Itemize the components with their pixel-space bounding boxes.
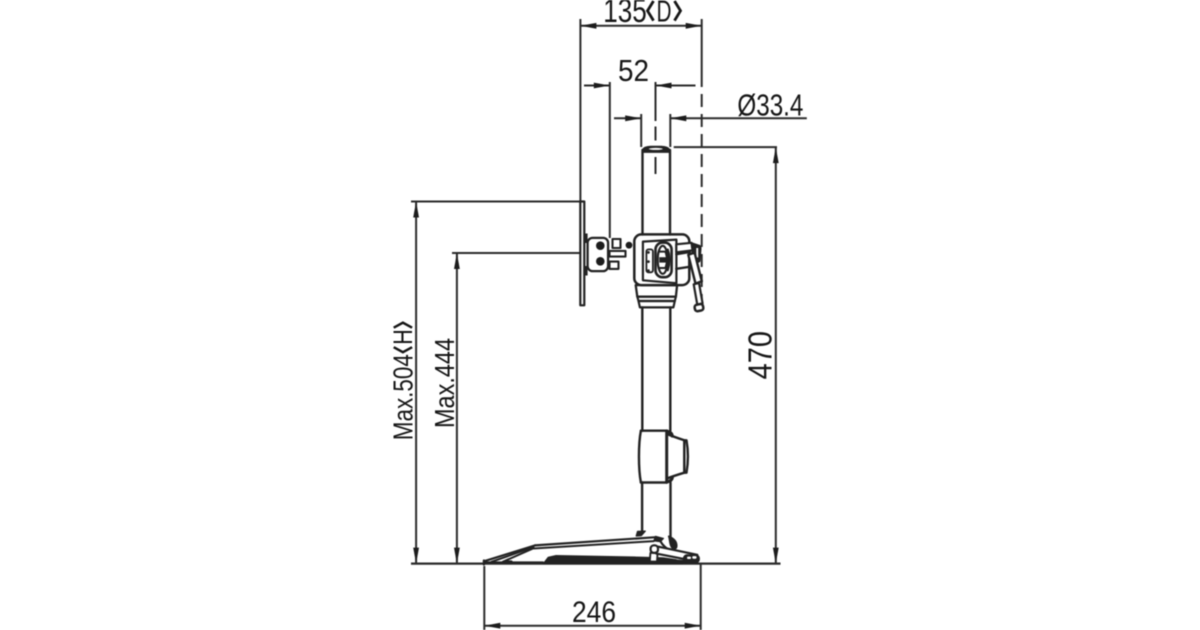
leader line O33.4 bbox=[670, 117, 807, 119]
base clip left strip bbox=[650, 553, 658, 562]
svg-text:H: H bbox=[388, 329, 418, 345]
clamp knob band bottom bbox=[659, 267, 667, 269]
dimension Max.504 line bbox=[415, 202, 417, 564]
base socket curve bbox=[659, 538, 668, 549]
svg-text:470: 470 bbox=[741, 331, 778, 379]
base terminal hole 1 bbox=[687, 557, 691, 559]
collar body bbox=[639, 431, 641, 483]
pole mid left edge bbox=[641, 307, 643, 430]
clamp inner rect bbox=[646, 249, 653, 272]
clamp knob arc 1 bbox=[668, 250, 670, 271]
base clip loop bbox=[651, 545, 658, 553]
dimension 246 line bbox=[484, 625, 700, 627]
extension line left 246 bbox=[483, 566, 485, 630]
lever arm bbox=[688, 253, 702, 284]
bracket bbox=[588, 238, 609, 271]
base socket wedge bbox=[654, 536, 664, 541]
base bottom blob bbox=[504, 560, 512, 563]
pole lower left edge bbox=[641, 483, 643, 533]
lever pivot sliver bbox=[696, 248, 698, 258]
arrow right 135(D) bbox=[686, 23, 702, 29]
clamp body bbox=[634, 234, 689, 285]
centerline pole (52 right extension) bbox=[655, 82, 657, 121]
base top edge inner bbox=[533, 541, 653, 548]
clamp knob band top bbox=[659, 251, 667, 253]
screw bottom bbox=[596, 257, 605, 266]
arrow left 135(D) bbox=[580, 23, 596, 29]
base terminal hole 2 bbox=[692, 556, 696, 559]
clamp band 3 bbox=[639, 301, 675, 307]
clamp face bbox=[643, 240, 677, 284]
dimension 470 line bbox=[775, 147, 777, 563]
base socket hook bbox=[669, 536, 677, 549]
extension line right 135(D) solid part bbox=[701, 19, 703, 74]
ground line bbox=[411, 562, 781, 564]
svg-text:Max.504: Max.504 bbox=[388, 354, 419, 440]
base right terminal bbox=[684, 555, 700, 563]
collar knob cone bbox=[667, 434, 684, 479]
O33.4 left arrow bbox=[614, 117, 641, 119]
collar knob cap bbox=[684, 440, 688, 472]
arm rod 1 bbox=[610, 251, 626, 257]
svg-text:135: 135 bbox=[603, 0, 647, 29]
lever rod bbox=[694, 283, 703, 305]
dimension 52 right tail and arrow bbox=[656, 85, 696, 87]
dimension Max.444 top extension bbox=[452, 252, 581, 254]
svg-text:Max.444: Max.444 bbox=[429, 338, 460, 428]
svg-text:Ø33.4: Ø33.4 bbox=[737, 87, 803, 122]
base top edge outer bbox=[535, 537, 656, 545]
base strap bbox=[656, 547, 697, 562]
clamp band 2 bbox=[637, 297, 676, 301]
collar corner top bbox=[667, 431, 672, 436]
base socket dark triangle bbox=[636, 531, 645, 536]
base left tip bbox=[483, 561, 485, 565]
pole mid right edge bbox=[669, 307, 671, 430]
dimension 52 left tail and arrow bbox=[584, 85, 610, 87]
arm rod 2 bbox=[610, 262, 619, 269]
extension line pole left edge bbox=[640, 114, 642, 147]
pole upper right edge bbox=[669, 150, 671, 235]
base left slope mid bbox=[492, 547, 534, 562]
dimension Max.444 line bbox=[456, 253, 458, 564]
base arch bbox=[543, 556, 683, 564]
extension line right 246 bbox=[700, 564, 702, 630]
base bottom left pad bbox=[484, 561, 543, 563]
pole top cap bbox=[642, 146, 670, 152]
clamp band 1 bbox=[636, 285, 677, 297]
arm block bbox=[613, 239, 621, 248]
pole lower right edge bbox=[669, 483, 671, 539]
lever pivot block bbox=[692, 243, 701, 262]
dimension Max.504 top extension bbox=[411, 201, 581, 203]
clamp knob band bbox=[659, 257, 666, 262]
extension line pole right edge bbox=[669, 114, 671, 147]
base bottom right dark bbox=[654, 558, 699, 564]
dimension 135(D) line bbox=[580, 25, 701, 27]
clamp wedge top bbox=[584, 234, 588, 244]
clamp knob outer bbox=[656, 243, 672, 278]
extension line left 135(D) bbox=[579, 19, 581, 202]
clamp right slant 2 bbox=[676, 267, 691, 269]
clamp wedge bottom bbox=[584, 266, 588, 276]
lever cap bbox=[694, 304, 704, 312]
VESA plate bbox=[580, 202, 584, 306]
arm screw head bbox=[626, 242, 633, 249]
extension line right 135(D) dashed part bbox=[701, 74, 703, 302]
svg-text:D: D bbox=[657, 0, 672, 29]
svg-text:246: 246 bbox=[572, 596, 616, 629]
lever mount bbox=[676, 243, 692, 253]
clamp right slant 1 bbox=[676, 252, 690, 254]
pole upper left edge bbox=[641, 150, 643, 235]
extension line left 52 bbox=[609, 82, 611, 238]
text Max.504(H) rotated bbox=[388, 323, 419, 441]
clamp knob capsule bbox=[658, 246, 668, 274]
clamp knob arc 2 bbox=[666, 253, 667, 268]
collar corner bottom bbox=[667, 478, 672, 483]
screw top bbox=[596, 241, 605, 250]
base left slope outer bbox=[484, 545, 535, 561]
base left slope inner bbox=[503, 549, 532, 562]
dimension 470 top extension bbox=[674, 146, 777, 148]
svg-text:52: 52 bbox=[618, 53, 649, 88]
